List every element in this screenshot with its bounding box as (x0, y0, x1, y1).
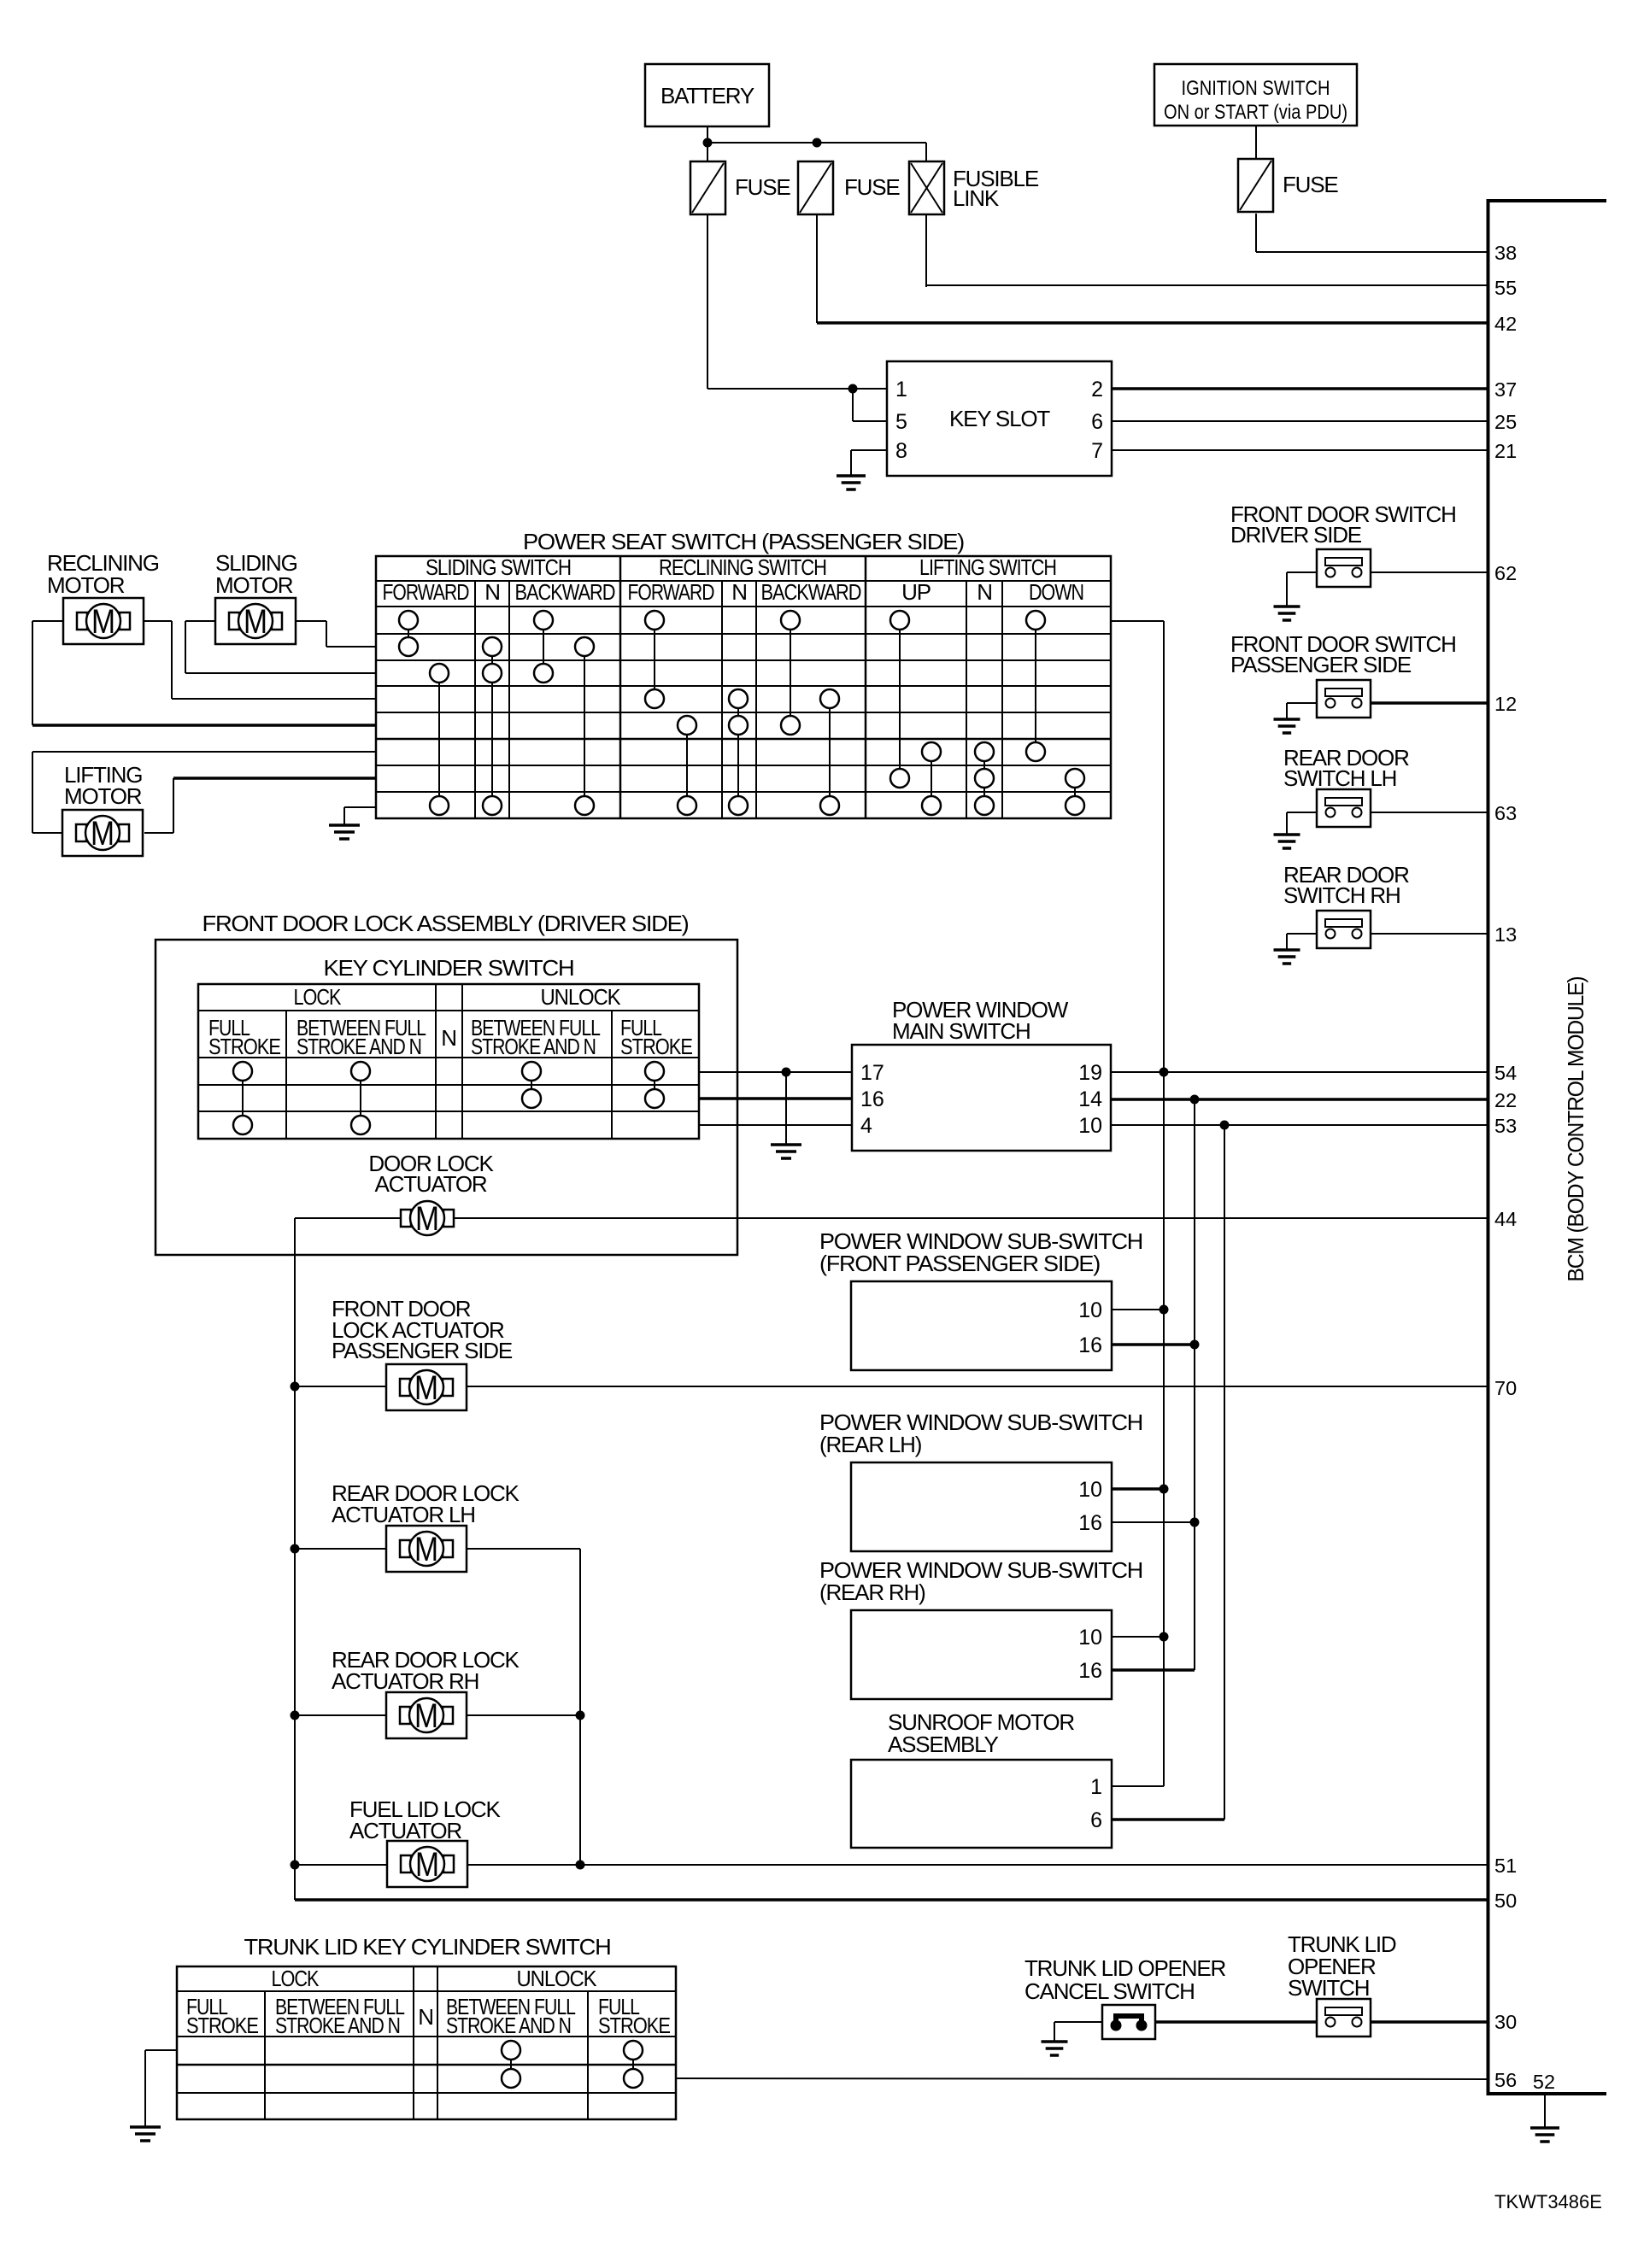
wire to LH actuator (295, 1548, 386, 1550)
svg-text:MAIN SWITCH: MAIN SWITCH (892, 1018, 1030, 1044)
fuel lid lock actuator motor (387, 1841, 467, 1887)
svg-text:22: 22 (1494, 1089, 1517, 1111)
junction power window sub-switch front passenger side pin 10 (1160, 1305, 1169, 1315)
svg-text:M: M (91, 815, 114, 853)
wire to BCM pin 55 (926, 284, 1488, 286)
wire to key slot pin 1 (707, 388, 887, 390)
svg-text:N: N (731, 579, 747, 605)
svg-text:STROKE AND N: STROKE AND N (471, 1034, 596, 1059)
wire power window sub-switch rear RH pin 10 (1112, 1636, 1164, 1638)
wire x345 to BCM 50 (295, 1898, 1488, 1902)
vertical common wire x679 (579, 1549, 581, 1865)
svg-text:1: 1 (1090, 1775, 1102, 1799)
wire branch down (852, 389, 854, 421)
front door switch passenger side switch symbol (1317, 680, 1371, 718)
front door lock assembly outline (156, 940, 737, 1255)
svg-text:M: M (91, 603, 115, 641)
svg-text:16: 16 (1078, 1511, 1102, 1535)
wire front door switch passenger side to BCM (1371, 701, 1488, 705)
junction power window sub-switch rear RH pin 10 (1160, 1632, 1169, 1642)
svg-text:CANCEL SWITCH: CANCEL SWITCH (1024, 1978, 1195, 2004)
svg-text:62: 62 (1494, 562, 1517, 584)
svg-text:BATTERY: BATTERY (660, 83, 754, 108)
rear door lock actuator LH motor (386, 1526, 467, 1572)
battery (645, 64, 769, 126)
svg-text:SLIDING SWITCH: SLIDING SWITCH (426, 554, 571, 580)
ground front door switch driver side (1274, 572, 1300, 620)
wire pin 19 to BCM 54 (1111, 1071, 1488, 1073)
wire front door switch driver side to BCM (1371, 571, 1488, 573)
svg-text:16: 16 (1078, 1659, 1102, 1683)
svg-text:LOCK: LOCK (294, 984, 343, 1010)
wire down to fusible link (925, 143, 927, 161)
svg-text:PASSENGER SIDE: PASSENGER SIDE (332, 1338, 513, 1363)
reclining motor (63, 598, 144, 644)
wire to BCM pin 42 (817, 321, 1488, 325)
wire rear door switch lh to ground (1287, 812, 1317, 813)
junction x345 passenger actuator (291, 1382, 300, 1392)
svg-text:TKWT3486E: TKWT3486E (1494, 2191, 1602, 2212)
svg-text:6: 6 (1091, 410, 1103, 434)
wire table row8 to ground (344, 806, 376, 808)
svg-text:55: 55 (1494, 277, 1517, 299)
ground key slot (837, 450, 866, 489)
wire power window sub-switch rear LH pin 16 (1112, 1521, 1195, 1523)
wire ignition to fuse F3 (1255, 126, 1257, 159)
wire fuse F1 down to key slot (707, 214, 708, 389)
front door lock actuator passenger side motor (386, 1364, 467, 1410)
wire fuse F2 down (816, 214, 818, 323)
svg-text:FORWARD: FORWARD (628, 579, 714, 605)
svg-text:PASSENGER SIDE: PASSENGER SIDE (1230, 652, 1412, 677)
svg-text:M: M (414, 1369, 438, 1407)
svg-text:N: N (441, 1025, 456, 1051)
junction pin19 net (1160, 1068, 1169, 1077)
svg-text:53: 53 (1494, 1115, 1517, 1137)
svg-text:FORWARD: FORWARD (383, 579, 469, 605)
wire cancel switch to ground (1054, 2021, 1102, 2023)
wire actuator to BCM 70 (467, 1386, 1488, 1387)
svg-text:2: 2 (1091, 378, 1103, 401)
svg-text:M: M (415, 1846, 439, 1884)
svg-text:M: M (414, 1697, 438, 1735)
wire power window sub-switch rear LH pin 10 (1112, 1487, 1164, 1491)
wire power window sub-switch rear RH pin 16 (1112, 1668, 1195, 1672)
svg-text:BACKWARD: BACKWARD (761, 579, 861, 605)
svg-text:M: M (414, 1531, 438, 1568)
junction x345 fuel lid (291, 1861, 300, 1870)
svg-text:ACTUATOR: ACTUATOR (374, 1171, 486, 1197)
svg-text:FRONT DOOR LOCK ASSEMBLY (DRIV: FRONT DOOR LOCK ASSEMBLY (DRIVER SIDE) (203, 911, 690, 936)
wire down to ground (785, 1072, 787, 1145)
svg-text:STROKE: STROKE (186, 2013, 259, 2038)
wire table row1 to power window main switch pin 19 net (1111, 620, 1164, 622)
wire battery top bus (707, 142, 926, 144)
junction x679 fuel lid (576, 1861, 585, 1870)
wire key slot pin 7 to BCM 21 (1112, 449, 1488, 451)
svg-text:LIFTING SWITCH: LIFTING SWITCH (919, 554, 1056, 580)
svg-text:STROKE AND N: STROKE AND N (446, 2013, 571, 2038)
svg-text:STROKE AND N: STROKE AND N (296, 1034, 421, 1059)
svg-text:UP: UP (901, 579, 931, 605)
svg-text:52: 52 (1533, 2071, 1555, 2093)
wire power window sub-switch front passenger side pin 10 (1112, 1309, 1164, 1310)
svg-text:6: 6 (1090, 1808, 1102, 1832)
svg-text:N: N (977, 579, 992, 605)
svg-text:16: 16 (1078, 1333, 1102, 1357)
svg-text:21: 21 (1494, 440, 1517, 462)
key cylinder switch table (198, 984, 699, 1139)
wire reclining motor right to table row4 (144, 620, 172, 622)
fuse F1 (690, 161, 725, 214)
junction ground tap (782, 1068, 791, 1077)
wire key slot pin 2 to BCM 37 (1112, 387, 1488, 390)
wire row2 to pin 16 (699, 1097, 852, 1100)
ground cancel switch (1042, 2022, 1068, 2055)
svg-text:UNLOCK: UNLOCK (541, 984, 622, 1010)
ground key cylinder net (771, 1145, 801, 1158)
svg-text:TRUNK LID OPENER: TRUNK LID OPENER (1024, 1955, 1225, 1981)
svg-text:70: 70 (1494, 1377, 1517, 1399)
svg-text:ON or START (via PDU): ON or START (via PDU) (1164, 101, 1347, 124)
wire to BCM pin 38 (1256, 251, 1488, 253)
svg-text:TRUNK LID KEY CYLINDER SWITCH: TRUNK LID KEY CYLINDER SWITCH (244, 1934, 611, 1960)
sliding motor (215, 598, 296, 644)
front door switch driver side switch symbol (1317, 549, 1371, 587)
vertical net x1433 (1224, 1125, 1225, 1820)
wire lifting motor right to table row7 (144, 832, 173, 834)
ground rear door switch rh (1274, 934, 1300, 964)
junction pin10 net (1220, 1121, 1230, 1130)
vertical common wire x345 (294, 1218, 296, 1900)
svg-text:M: M (244, 603, 267, 641)
wire fuel lid actuator to BCM 51 (467, 1864, 1488, 1866)
svg-text:DOWN: DOWN (1029, 579, 1083, 605)
wire front door switch driver side to ground (1287, 571, 1317, 573)
svg-text:10: 10 (1078, 1114, 1102, 1138)
wire to fuel lid actuator (295, 1864, 386, 1866)
ground at BCM pin 52 (1530, 2095, 1559, 2142)
svg-text:BCM (BODY CONTROL MODULE): BCM (BODY CONTROL MODULE) (1563, 976, 1588, 1282)
wire rear door switch rh to ground (1287, 933, 1317, 935)
wire door lock actuator to BCM 44 (454, 1217, 1488, 1219)
key slot module (887, 361, 1112, 476)
wire sunroof pin 1 (1112, 1785, 1164, 1787)
vertical net x1398 (1194, 1099, 1195, 1670)
svg-text:UNLOCK: UNLOCK (517, 1966, 598, 1991)
wire opener switch to BCM 30 (1371, 2020, 1488, 2024)
svg-text:STROKE: STROKE (598, 2013, 671, 2038)
svg-text:STROKE: STROKE (620, 1034, 693, 1059)
wire door lock actuator left (295, 1217, 401, 1219)
svg-text:FUSE: FUSE (1283, 172, 1338, 197)
svg-text:SWITCH LH: SWITCH LH (1283, 765, 1396, 791)
svg-text:(REAR RH): (REAR RH) (819, 1579, 925, 1605)
svg-text:KEY CYLINDER SWITCH: KEY CYLINDER SWITCH (324, 955, 574, 981)
svg-text:M: M (415, 1200, 439, 1238)
svg-text:SWITCH RH: SWITCH RH (1283, 882, 1400, 908)
svg-text:STROKE AND N: STROKE AND N (275, 2013, 400, 2038)
svg-text:7: 7 (1091, 439, 1103, 463)
junction fuse F2 tap (813, 138, 822, 148)
svg-text:MOTOR: MOTOR (215, 572, 293, 598)
junction x345 RH actuator (291, 1711, 300, 1720)
fuse F3 (1238, 159, 1273, 212)
wire battery to fuse F1 (707, 126, 708, 161)
svg-text:FUSE: FUSE (844, 174, 900, 200)
wire pin 14 to BCM 22 (1111, 1098, 1488, 1101)
wire trunk key cylinder to BCM 56 (676, 2078, 1488, 2079)
svg-text:N: N (484, 579, 500, 605)
wire to actuator (295, 1386, 386, 1387)
junction power window sub-switch front passenger side pin 16 (1190, 1340, 1200, 1350)
svg-text:DRIVER SIDE: DRIVER SIDE (1230, 522, 1362, 548)
svg-text:8: 8 (895, 439, 907, 463)
wire cancel switch to opener switch (1155, 2020, 1317, 2024)
svg-text:1: 1 (895, 378, 907, 401)
svg-text:10: 10 (1078, 1298, 1102, 1322)
svg-text:13: 13 (1494, 923, 1517, 946)
svg-text:10: 10 (1078, 1478, 1102, 1502)
svg-text:4: 4 (860, 1114, 872, 1138)
junction x679 RH actuator (576, 1711, 585, 1720)
svg-text:16: 16 (860, 1087, 884, 1111)
wire LH actuator to x679 (467, 1548, 580, 1550)
svg-text:ACTUATOR LH: ACTUATOR LH (332, 1502, 475, 1527)
svg-text:12: 12 (1494, 693, 1517, 715)
wire key slot pin 6 to BCM 25 (1112, 420, 1488, 422)
svg-text:54: 54 (1494, 1062, 1517, 1084)
ground power seat switch (329, 807, 360, 839)
lifting motor (62, 810, 143, 856)
svg-text:POWER SEAT SWITCH (PASSENGER S: POWER SEAT SWITCH (PASSENGER SIDE) (523, 529, 965, 554)
svg-text:ASSEMBLY: ASSEMBLY (888, 1732, 998, 1757)
BCM bus vertical (1487, 199, 1490, 2095)
wire row1 to pin 17 (699, 1071, 852, 1073)
svg-text:STROKE: STROKE (208, 1034, 281, 1059)
ground rear door switch lh (1274, 812, 1300, 848)
svg-text:(REAR LH): (REAR LH) (819, 1432, 922, 1457)
svg-text:5: 5 (895, 410, 907, 434)
wire row3 to pin 4 (699, 1124, 852, 1126)
junction x345 LH actuator (291, 1544, 300, 1554)
rear door switch rh switch symbol (1317, 911, 1371, 948)
fusible link FL (909, 161, 944, 214)
ground trunk key cylinder (130, 2050, 161, 2141)
svg-text:SWITCH: SWITCH (1288, 1975, 1369, 2001)
svg-text:RECLINING SWITCH: RECLINING SWITCH (659, 554, 826, 580)
rear door lock actuator RH motor (386, 1692, 467, 1738)
junction power window sub-switch rear LH pin 16 (1190, 1518, 1200, 1527)
svg-text:BACKWARD: BACKWARD (515, 579, 615, 605)
wire to RH actuator (295, 1714, 386, 1716)
svg-text:LINK: LINK (953, 185, 1000, 211)
svg-text:50: 50 (1494, 1890, 1517, 1912)
wire rear door switch rh to BCM (1371, 933, 1488, 935)
svg-text:MOTOR: MOTOR (47, 572, 125, 598)
svg-text:10: 10 (1078, 1626, 1102, 1650)
svg-text:ACTUATOR: ACTUATOR (349, 1818, 461, 1843)
wire fusible link down (925, 214, 927, 287)
wire fuse F3 down (1255, 214, 1257, 252)
wire to key slot pin 5 (853, 420, 887, 422)
wire reclining motor left to table row5 (32, 620, 63, 622)
svg-text:38: 38 (1494, 242, 1517, 264)
wire trunk key cylinder to ground (145, 2049, 177, 2051)
svg-text:LOCK: LOCK (272, 1966, 320, 1991)
wire power window sub-switch front passenger side pin 16 (1112, 1343, 1195, 1346)
wire pin 10 to BCM 53 (1111, 1124, 1488, 1126)
wire RH actuator to x679 (467, 1714, 580, 1716)
door lock actuator motor (401, 1200, 454, 1238)
svg-text:37: 37 (1494, 378, 1517, 401)
wire front door switch passenger side to ground (1287, 702, 1317, 704)
junction battery feed (703, 138, 713, 148)
svg-text:42: 42 (1494, 313, 1517, 335)
wire sliding motor right to table row2 (296, 620, 326, 622)
svg-text:KEY SLOT: KEY SLOT (949, 406, 1050, 431)
wire key slot pin 8 (851, 449, 887, 451)
junction pin14 net (1190, 1095, 1200, 1105)
ignition switch source box (1154, 64, 1357, 126)
trunk lid opener switch symbol (1317, 1999, 1371, 2037)
svg-text:19: 19 (1078, 1061, 1102, 1085)
wire sunroof pin 6 (1112, 1818, 1224, 1821)
svg-text:MOTOR: MOTOR (64, 783, 142, 809)
junction key slot feed (848, 384, 858, 394)
svg-text:FUSE: FUSE (735, 174, 790, 200)
svg-text:25: 25 (1494, 411, 1517, 433)
BCM bottom arm (1487, 2092, 1607, 2095)
svg-text:30: 30 (1494, 2011, 1517, 2033)
BCM top arm (1487, 199, 1607, 202)
svg-text:IGNITION SWITCH: IGNITION SWITCH (1182, 77, 1330, 100)
wire lifting motor left to table row6 (32, 832, 62, 834)
vertical net x1362 (1163, 621, 1165, 1786)
svg-text:17: 17 (860, 1061, 884, 1085)
junction power window sub-switch rear LH pin 10 (1160, 1485, 1169, 1494)
svg-text:51: 51 (1494, 1855, 1517, 1877)
svg-text:44: 44 (1494, 1208, 1517, 1230)
rear door switch lh switch symbol (1317, 789, 1371, 827)
svg-text:N: N (418, 2004, 433, 2030)
ground front door switch passenger side (1274, 703, 1300, 733)
fuse F2 (798, 161, 833, 214)
svg-text:ACTUATOR RH: ACTUATOR RH (332, 1668, 478, 1694)
svg-text:63: 63 (1494, 802, 1517, 824)
svg-text:14: 14 (1078, 1087, 1102, 1111)
svg-text:(FRONT PASSENGER SIDE): (FRONT PASSENGER SIDE) (819, 1251, 1101, 1276)
svg-text:56: 56 (1494, 2069, 1517, 2091)
wire sliding motor left to table row3 (185, 620, 215, 622)
wire rear door switch lh to BCM (1371, 812, 1488, 813)
